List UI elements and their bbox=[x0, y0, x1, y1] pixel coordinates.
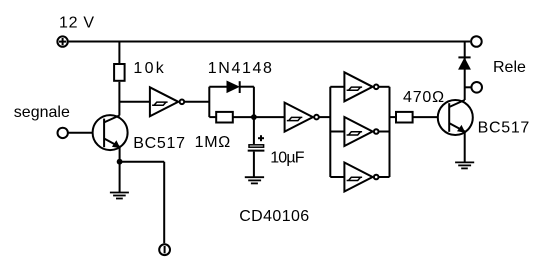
svg-text:1N4148: 1N4148 bbox=[208, 60, 274, 77]
svg-text:BC517: BC517 bbox=[478, 120, 530, 137]
svg-text:BC517: BC517 bbox=[133, 135, 185, 152]
svg-text:Rele: Rele bbox=[493, 59, 526, 76]
svg-text:10µF: 10µF bbox=[270, 150, 305, 167]
svg-text:12 V: 12 V bbox=[59, 14, 95, 31]
svg-text:CD40106: CD40106 bbox=[239, 208, 309, 225]
svg-text:1MΩ: 1MΩ bbox=[195, 134, 231, 151]
svg-text:10k: 10k bbox=[133, 60, 166, 77]
svg-text:470Ω: 470Ω bbox=[403, 89, 445, 106]
svg-text:segnale: segnale bbox=[14, 104, 70, 121]
